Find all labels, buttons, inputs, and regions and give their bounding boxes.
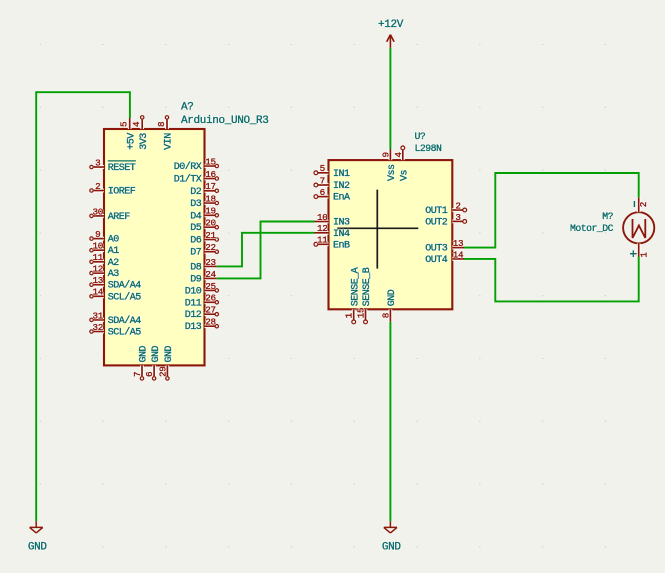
- motor M glyph: [633, 219, 646, 238]
- svg-text:IN3: IN3: [333, 218, 350, 229]
- svg-text:IOREF: IOREF: [108, 187, 136, 198]
- svg-text:5: 5: [119, 122, 130, 127]
- arduino pin 14 SCL/A5 (left): [90, 287, 142, 304]
- svg-text:Vss: Vss: [387, 164, 398, 181]
- svg-text:D2: D2: [190, 187, 202, 198]
- svg-text:29: 29: [157, 366, 168, 377]
- svg-text:GND: GND: [382, 541, 402, 553]
- arduino pin 11 A2 (left): [90, 252, 120, 269]
- arduino pin 28 D13 (right): [185, 317, 219, 334]
- svg-text:25: 25: [205, 281, 216, 292]
- svg-text:IN4: IN4: [333, 229, 350, 240]
- motor M? Motor_DC body circle: [623, 212, 654, 243]
- arduino pin 22 D7 (right): [190, 242, 218, 259]
- svg-text:D4: D4: [190, 211, 202, 222]
- svg-text:11: 11: [317, 235, 328, 246]
- arduino pin 15 D0/RX (right): [174, 156, 219, 173]
- svg-text:A1: A1: [108, 246, 120, 257]
- L298N pin 2 OUT1 (right): [425, 200, 466, 217]
- svg-text:17: 17: [205, 181, 216, 192]
- wire arduino D8 pin23 to L298N IN4 pin12: [217, 233, 315, 267]
- svg-text:1: 1: [344, 312, 355, 318]
- L298N pin 12 IN4 (left): [315, 223, 351, 240]
- svg-text:M?: M?: [602, 211, 613, 222]
- svg-text:20: 20: [205, 218, 216, 229]
- svg-text:9: 9: [95, 229, 100, 240]
- L298N pin 7 IN2 (left): [314, 175, 350, 192]
- svg-text:OUT3: OUT3: [425, 244, 448, 255]
- arduino pin 4 3V3 (top): [131, 116, 150, 150]
- ground symbol GND (center, under L298N): [382, 521, 402, 553]
- arduino pin 12 A3 (left): [90, 264, 120, 281]
- svg-text:VIN: VIN: [164, 133, 175, 150]
- L298N pin 10 IN3 (left): [315, 212, 351, 229]
- wire L298N GND pin8 down to GND symbol: [389, 322, 391, 522]
- arduino pin 16 D1/TX (right): [174, 169, 219, 186]
- svg-text:A3: A3: [108, 269, 120, 280]
- svg-text:SCL/A5: SCL/A5: [108, 327, 142, 339]
- ground symbol GND (left): [28, 521, 48, 553]
- svg-text:18: 18: [205, 193, 216, 204]
- svg-text:Motor_DC: Motor_DC: [570, 223, 614, 234]
- svg-text:SCL/A5: SCL/A5: [108, 291, 142, 303]
- arduino pin 21 D6 (right): [190, 230, 218, 247]
- svg-text:8: 8: [156, 122, 167, 127]
- svg-text:RESET: RESET: [108, 163, 136, 174]
- wire +5V net: arduino pin5 up, left, down to GND: [36, 92, 130, 521]
- svg-text:L298N: L298N: [415, 143, 443, 154]
- arduino pin 29 GND (bottom): [157, 345, 175, 380]
- svg-text:28: 28: [205, 317, 216, 328]
- arduino pin 18 D3 (right): [190, 193, 218, 210]
- L298N pin 15 SENSE_B (bottom): [356, 267, 374, 324]
- L298N pin 4 Vs (top): [393, 146, 411, 181]
- L298N pin 8 GND (bottom): [380, 289, 398, 321]
- arduino pin 3 RESET (left): [90, 157, 136, 174]
- arduino pin 20 D5 (right): [190, 218, 218, 235]
- svg-text:EnB: EnB: [333, 240, 350, 251]
- svg-text:14: 14: [453, 249, 464, 260]
- arduino pin 32 SCL/A5 (left): [90, 322, 142, 339]
- arduino pin 13 SDA/A4 (left): [90, 275, 142, 292]
- svg-text:D7: D7: [190, 248, 202, 259]
- svg-text:2: 2: [455, 200, 460, 211]
- svg-text:Vs: Vs: [400, 169, 411, 181]
- svg-text:23: 23: [205, 257, 216, 268]
- L298N pin 13 OUT3 (right): [425, 238, 464, 255]
- svg-text:27: 27: [205, 305, 216, 316]
- svg-text:D5: D5: [190, 223, 202, 234]
- power symbol +12V: [378, 19, 404, 48]
- svg-text:OUT1: OUT1: [425, 206, 448, 217]
- arduino module A? body: [104, 129, 205, 365]
- arduino pin 26 D11 (right): [185, 293, 219, 310]
- wire L298N OUT3 pin13 to motor pin2: [464, 173, 639, 248]
- svg-text:D13: D13: [185, 322, 202, 333]
- svg-text:8: 8: [380, 313, 391, 318]
- wire L298N OUT4 pin14 to motor pin1: [464, 257, 639, 302]
- svg-text:GND: GND: [164, 345, 175, 362]
- svg-text:4: 4: [393, 152, 404, 158]
- wire +12V to L298N Vss pin9: [389, 48, 391, 149]
- arduino pin 10 A1 (left): [90, 241, 120, 258]
- svg-text:5: 5: [320, 163, 325, 174]
- grid dots: [40, 45, 606, 547]
- L298N pin 5 IN1 (left): [314, 163, 350, 180]
- arduino pin 25 D10 (right): [185, 281, 219, 298]
- svg-text:D11: D11: [185, 298, 202, 309]
- svg-text:GND: GND: [387, 289, 398, 306]
- L298N module U? body: [329, 160, 453, 309]
- motor pin 1 (bottom): [630, 243, 649, 257]
- svg-text:GND: GND: [151, 345, 162, 362]
- svg-text:Arduino_UNO_R3: Arduino_UNO_R3: [181, 115, 269, 127]
- svg-text:3: 3: [455, 212, 460, 223]
- svg-text:+12V: +12V: [378, 19, 404, 31]
- wire arduino D9 pin24 to L298N IN3 pin10: [217, 222, 315, 279]
- svg-text:24: 24: [205, 269, 216, 280]
- svg-text:6: 6: [320, 187, 325, 198]
- svg-text:OUT2: OUT2: [425, 217, 448, 228]
- svg-text:11: 11: [93, 252, 104, 263]
- L298N pin 9 Vss (top): [380, 149, 398, 181]
- svg-text:EnA: EnA: [333, 193, 350, 204]
- arduino pin 27 D12 (right): [185, 305, 219, 322]
- svg-text:+5V: +5V: [126, 133, 137, 150]
- svg-text:19: 19: [205, 206, 216, 217]
- L298N divider cross: [337, 190, 418, 269]
- svg-text:2: 2: [638, 202, 649, 207]
- svg-text:31: 31: [93, 310, 104, 321]
- svg-text:IN1: IN1: [333, 169, 350, 180]
- svg-text:12: 12: [317, 223, 328, 234]
- svg-text:U?: U?: [415, 131, 426, 142]
- svg-text:D9: D9: [190, 274, 202, 285]
- L298N pin 1 SENSE_A (bottom): [344, 267, 362, 324]
- L298N pin 11 EnB (left): [314, 235, 350, 252]
- arduino pin 9 A0 (left): [90, 229, 120, 246]
- svg-text:9: 9: [380, 152, 391, 157]
- svg-text:OUT4: OUT4: [425, 255, 448, 266]
- arduino pin 31 SDA/A4 (left): [90, 310, 142, 327]
- svg-text:13: 13: [453, 238, 464, 249]
- svg-text:7: 7: [132, 372, 143, 377]
- svg-text:15: 15: [205, 156, 216, 167]
- svg-text:32: 32: [93, 322, 104, 333]
- svg-text:A?: A?: [181, 102, 194, 114]
- L298N pin 3 OUT2 (right): [425, 212, 466, 229]
- svg-text:D6: D6: [190, 236, 202, 247]
- svg-text:14: 14: [93, 287, 104, 298]
- svg-text:30: 30: [93, 206, 104, 217]
- svg-text:SENSE_B: SENSE_B: [362, 267, 373, 306]
- svg-text:IN2: IN2: [333, 181, 350, 192]
- svg-text:SDA/A4: SDA/A4: [108, 280, 142, 292]
- svg-text:13: 13: [93, 275, 104, 286]
- svg-text:1: 1: [638, 252, 649, 258]
- arduino pin 8 VIN (top): [156, 116, 175, 150]
- svg-text:3V3: 3V3: [139, 133, 150, 150]
- svg-text:6: 6: [144, 372, 155, 377]
- svg-text:AREF: AREF: [108, 212, 131, 223]
- svg-text:A0: A0: [108, 235, 120, 246]
- arduino pin 24 D9 (right): [190, 269, 216, 286]
- svg-text:15: 15: [356, 308, 367, 319]
- svg-text:GND: GND: [28, 541, 48, 553]
- svg-text:D3: D3: [190, 199, 202, 210]
- svg-text:16: 16: [205, 169, 216, 180]
- svg-text:A2: A2: [108, 258, 120, 269]
- svg-text:D10: D10: [185, 286, 202, 297]
- L298N pin 6 EnA (left): [314, 187, 350, 204]
- svg-text:10: 10: [317, 212, 328, 223]
- svg-text:D12: D12: [185, 310, 202, 321]
- svg-text:D1/TX: D1/TX: [174, 174, 202, 186]
- svg-text:10: 10: [93, 241, 104, 252]
- arduino pin 23 D8 (right): [190, 257, 216, 274]
- L298N pin 14 OUT4 (right): [425, 249, 464, 266]
- motor pin 2 (top): [634, 198, 649, 213]
- arduino pin 6 GND (bottom): [144, 345, 162, 380]
- svg-text:SENSE_A: SENSE_A: [350, 267, 361, 306]
- svg-text:12: 12: [93, 264, 104, 275]
- arduino pin 30 AREF (left): [90, 206, 131, 223]
- arduino pin 17 D2 (right): [190, 181, 218, 198]
- svg-text:7: 7: [320, 175, 325, 186]
- arduino pin 7 GND (bottom): [132, 345, 150, 380]
- svg-text:GND: GND: [139, 345, 150, 362]
- svg-text:SDA/A4: SDA/A4: [108, 315, 142, 327]
- arduino pin 2 IOREF (left): [90, 181, 136, 198]
- svg-text:3: 3: [95, 157, 100, 168]
- arduino pin 19 D4 (right): [190, 206, 218, 223]
- svg-text:D8: D8: [190, 262, 202, 273]
- arduino pin 5 +5V (top): [119, 118, 138, 150]
- svg-text:21: 21: [205, 230, 216, 241]
- svg-text:22: 22: [205, 242, 216, 253]
- svg-text:4: 4: [131, 121, 142, 127]
- svg-text:2: 2: [95, 181, 100, 192]
- svg-text:26: 26: [205, 293, 216, 304]
- svg-text:D0/RX: D0/RX: [174, 161, 202, 173]
